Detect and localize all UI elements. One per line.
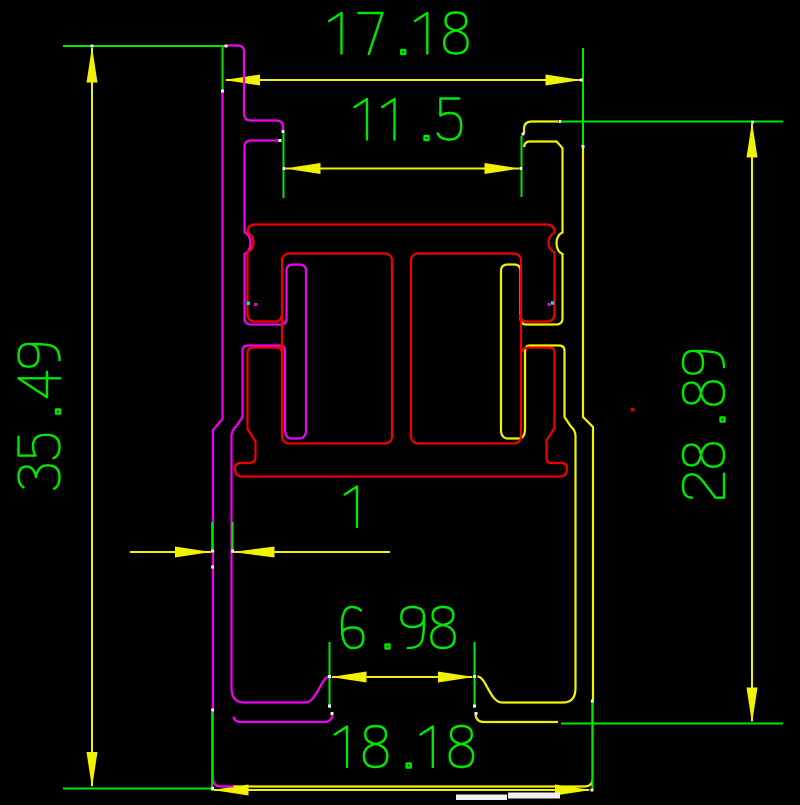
profile: bottom edge (yellow): [233, 702, 593, 787]
red slider: lower slots + bottom bar: [235, 348, 567, 477]
green extension line: 1 right, x=232: [232, 522, 234, 552]
cyan marker right: [551, 301, 554, 304]
profile: left lip + ear + top edge (magenta): [227, 46, 283, 132]
green extension line: 1 / 18.18 left, x=211.5: [211, 522, 213, 551]
yellow dimension line 35.49, x=92: [91, 48, 93, 786]
dimension text 6.98: [342, 607, 455, 649]
profile: left part outer edge (magenta): [213, 92, 236, 787]
green extension line: 18.18 right, x=592.5: [592, 701, 594, 791]
red slider: right upper slot lining: [521, 252, 555, 322]
red slider: left groove notch: [248, 233, 254, 252]
magenta marker right: [548, 303, 551, 306]
green extension line: 6.98 right, x=474.5: [474, 642, 476, 708]
dimension definition point blips (white): [91, 45, 94, 48]
red slider: right chamber: [411, 254, 521, 444]
cyan marker left: [247, 302, 250, 305]
green extension line: 11.5 right, x=521.5: [521, 136, 523, 197]
yellow dimension line 11.5, y=168.5: [286, 168, 519, 170]
magenta marker left: [254, 303, 257, 306]
dimension text 17.18: [329, 13, 467, 55]
green extension line: 35.49 bottom, y=788.5: [63, 788, 212, 790]
yellow dimension line 6.98, y=677: [332, 676, 472, 678]
profile: left bottom lip surface (magenta): [234, 713, 333, 722]
profile: right bottom lip surface (yellow): [476, 713, 559, 722]
green extension line: 28.89 top, y=121.5: [562, 121, 783, 123]
red slider: left chamber: [282, 254, 392, 444]
dimension text 28.89 (rotated): [683, 351, 725, 498]
green extension line: 17.18 right, x=583: [582, 48, 584, 146]
green extension line: 28.89 bottom, y=723.5: [561, 723, 783, 725]
dimension text 18.18: [335, 726, 473, 768]
red slider: left upper slot lining: [248, 252, 282, 322]
white clipped marks at bottom edge: [456, 795, 507, 801]
green extension line: 11.5 left, x=283.5: [283, 133, 285, 198]
profile: right part top lip (yellow): [524, 122, 558, 135]
red dot: [631, 408, 635, 412]
yellow dimension line 1, y=552 (arrows outside): [130, 551, 211, 553]
green extension line: 17.18 left, x=222.5: [222, 47, 224, 90]
dimension text 1: [345, 487, 357, 528]
yellow dimension line 18.18, y=790: [214, 789, 589, 791]
profile: right part inner boundary (yellow): [478, 142, 576, 703]
yellow dimension line 28.89, x=752: [751, 124, 753, 721]
green extension line: 6.98 left, x=329.5: [329, 642, 331, 708]
dimension text 35.49 (rotated): [19, 344, 61, 489]
red slider: right groove notch: [549, 233, 555, 252]
profile: right part outer edge (yellow): [583, 148, 593, 702]
profile: left part inner boundary (magenta): [232, 141, 330, 703]
green extension line: 35.49 top, y=46: [63, 45, 226, 47]
red slider: top bar: [248, 225, 555, 234]
yellow dimension line 17.18, y=80: [226, 79, 580, 81]
dimension text 11.5: [355, 99, 462, 141]
